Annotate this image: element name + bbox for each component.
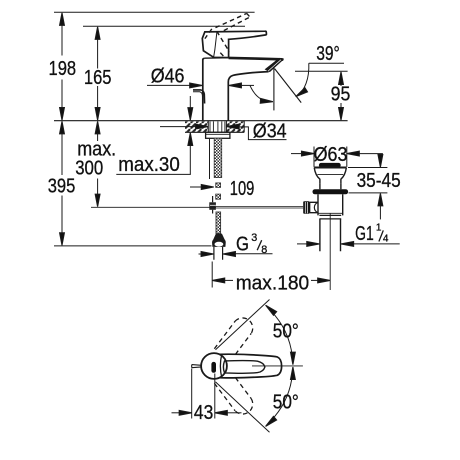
svg-text:Ø34: Ø34 bbox=[253, 121, 287, 143]
svg-text:109: 109 bbox=[230, 178, 255, 200]
svg-text:35-45: 35-45 bbox=[357, 170, 401, 192]
svg-text:max.30: max.30 bbox=[118, 154, 180, 176]
waste body inner line bbox=[318, 212, 343, 214]
hose cone end fitting bbox=[212, 234, 226, 247]
extension line top (overall height) bbox=[54, 11, 255, 13]
waste knurled knob bbox=[303, 201, 310, 214]
flexible supply hose (threaded texture) bbox=[214, 138, 222, 199]
svg-text:165: 165 bbox=[84, 67, 112, 89]
deck slab cross-section bbox=[185, 121, 244, 133]
dimension Ø63 bbox=[291, 147, 383, 167]
waste collar bbox=[319, 215, 341, 219]
svg-text:max.180: max.180 bbox=[236, 272, 310, 294]
waste actuating rod bbox=[216, 207, 303, 208]
dimension Ø34 arrows and leader bbox=[160, 124, 287, 139]
max.30 label underline bbox=[116, 173, 191, 175]
pull rod knob at rear of body bbox=[193, 90, 205, 104]
svg-text:1: 1 bbox=[376, 222, 382, 233]
handle raised fist left edge bbox=[205, 29, 212, 39]
spout top edge bbox=[229, 58, 284, 60]
mounting shank in hole bbox=[210, 121, 225, 132]
stream swing arc with arrow bbox=[250, 86, 273, 104]
lever barrel outline bbox=[220, 354, 282, 378]
svg-text:50°: 50° bbox=[273, 320, 299, 342]
waste centerline bbox=[329, 214, 331, 291]
svg-text:50°: 50° bbox=[273, 392, 299, 414]
dimension 109 arrow bbox=[190, 185, 214, 190]
aerator inner white slit bbox=[268, 60, 281, 71]
dimension 43 bbox=[172, 369, 242, 419]
svg-text:39°: 39° bbox=[316, 43, 340, 65]
dimension Ø46 label line and arrows bbox=[147, 83, 254, 88]
waste body upper walls bbox=[320, 183, 341, 189]
countertop deck line bbox=[54, 120, 348, 122]
waste plug cap bbox=[319, 163, 341, 168]
waste flange cone sides bbox=[314, 168, 320, 184]
handle raised tip bbox=[247, 13, 250, 17]
waste port opening arc bbox=[314, 203, 317, 213]
hose lower section bbox=[216, 212, 221, 234]
dimension 95 bbox=[295, 71, 348, 120]
svg-text:198: 198 bbox=[49, 58, 77, 80]
pop-up rod coupler bbox=[209, 196, 216, 214]
handle raised fist right edge bbox=[217, 31, 230, 51]
body top edge bbox=[204, 57, 228, 60]
svg-text:G: G bbox=[236, 233, 249, 255]
lever pivot circle bbox=[201, 353, 227, 379]
dimension max.180 bbox=[212, 278, 330, 283]
waste body lower walls bbox=[318, 194, 343, 215]
lever raised position dashed (upper 50) bbox=[214, 314, 256, 361]
deck hole edges bbox=[208, 121, 226, 133]
waste rubber seal bbox=[313, 189, 349, 194]
max.180 left extension line bbox=[211, 262, 213, 288]
39-degree leader arc with arrow bbox=[294, 63, 308, 98]
pull rod below deck bbox=[209, 138, 211, 179]
handle raised bottom dash bbox=[220, 53, 224, 57]
svg-text:3: 3 bbox=[251, 232, 257, 244]
centerline bbox=[252, 365, 303, 367]
dimension 165 bbox=[95, 27, 100, 120]
extension line handle height bbox=[83, 25, 245, 27]
handle raised blade bottom bbox=[224, 17, 250, 31]
svg-text:300: 300 bbox=[75, 157, 103, 179]
svg-text:G1: G1 bbox=[355, 223, 374, 245]
pop-up waste assembly bbox=[216, 163, 348, 290]
svg-text:8: 8 bbox=[261, 244, 267, 256]
svg-text:4: 4 bbox=[383, 234, 389, 245]
G1 1/4 fraction slash bbox=[379, 230, 383, 241]
G3/8 connector pipe stub bbox=[214, 247, 223, 260]
top view of lever handle bbox=[172, 300, 303, 433]
svg-text:Ø63: Ø63 bbox=[314, 144, 348, 166]
svg-text:395: 395 bbox=[48, 175, 76, 197]
lower 50 arc bbox=[264, 367, 295, 428]
G3/8 fraction slash bbox=[257, 240, 262, 250]
lever barrel fill bbox=[212, 354, 281, 378]
dimension 198 bbox=[60, 13, 65, 120]
handle inner fold line bbox=[214, 32, 217, 57]
lever front tab bbox=[192, 365, 202, 368]
dimension 35-45 bbox=[348, 154, 387, 220]
dimension max.300 bbox=[95, 121, 100, 206]
lever lowered position dashed (lower 50) bbox=[214, 371, 256, 418]
waste flange top bbox=[314, 167, 346, 169]
39-degree label underline bbox=[309, 62, 344, 64]
svg-text:95: 95 bbox=[331, 83, 351, 105]
handle raised position (dashed) blade top bbox=[216, 13, 247, 27]
dimension max.30 (deck thickness) bbox=[116, 96, 192, 174]
upper 50 arc bbox=[264, 303, 295, 364]
50 degree extension line lower bbox=[216, 382, 270, 432]
pull rod line / max.300 extension bbox=[91, 206, 216, 208]
50 degree extension line upper bbox=[216, 300, 270, 350]
lever neck curve bbox=[220, 354, 221, 378]
extension line at G3/8 level bbox=[54, 245, 212, 247]
waste side port bbox=[310, 202, 318, 212]
svg-text:43: 43 bbox=[194, 402, 213, 424]
mounting nut below deck bbox=[206, 132, 230, 138]
dimension G1 1/4 arrows bbox=[297, 242, 400, 247]
dimension 395 bbox=[60, 121, 65, 245]
body right wall and spout underside bbox=[228, 72, 268, 121]
dimension G3/8 arrows bbox=[199, 240, 273, 256]
deck bottom line bbox=[185, 131, 244, 133]
aerator slanted face bbox=[265, 58, 284, 72]
stream direction vertical reference bbox=[273, 67, 275, 111]
waste tailpipe bbox=[320, 219, 341, 251]
svg-text:Ø46: Ø46 bbox=[151, 66, 185, 88]
lever inner outline bbox=[223, 361, 265, 374]
handle lever (solid, horizontal) bbox=[202, 31, 266, 57]
faucet main view bbox=[193, 13, 284, 120]
stream 39-degree slant line bbox=[275, 69, 302, 103]
body left wall bbox=[203, 58, 204, 120]
valve mark bar bbox=[211, 362, 216, 373]
waste flange inner line bbox=[317, 173, 343, 175]
